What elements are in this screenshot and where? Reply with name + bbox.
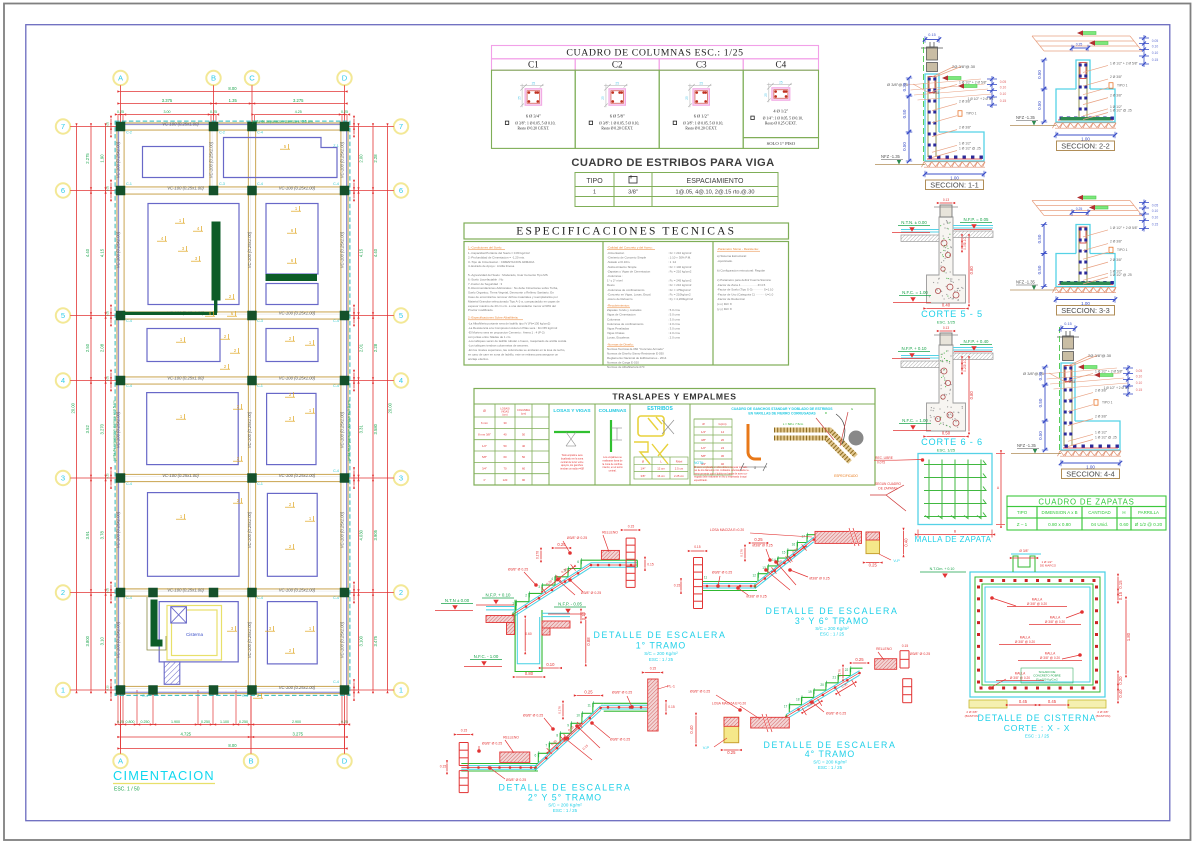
top dimension line 8.00	[117, 86, 347, 93]
svg-text:3.475: 3.475	[373, 635, 378, 646]
svg-text:Columnas de confinamiento: Columnas de confinamiento	[607, 322, 644, 326]
svg-text:CIMENTACION: CIMENTACION	[113, 768, 215, 783]
perimeter beams	[117, 123, 349, 695]
svg-text:0.50: 0.50	[1038, 398, 1043, 407]
svg-text:0.15: 0.15	[694, 545, 701, 549]
svg-text:R/del: R/del	[676, 459, 683, 463]
column C4 cross-section glyph	[764, 80, 792, 102]
svg-text:4.030: 4.030	[359, 529, 364, 540]
svg-text:20: 20	[721, 438, 725, 442]
top step dims	[577, 695, 600, 697]
svg-text:TIPO 1: TIPO 1	[966, 112, 977, 116]
svg-text:0.25: 0.25	[855, 657, 864, 662]
section label SECCION: 3-3	[1057, 306, 1115, 316]
svg-text:12 cm: 12 cm	[657, 467, 665, 471]
svg-text:Ø 1/2 @ 0.20: Ø 1/2 @ 0.20	[1135, 522, 1163, 527]
svg-text:21: 21	[833, 676, 837, 680]
svg-text:0.10: 0.10	[1152, 45, 1159, 49]
column C1 rebar text	[505, 114, 555, 131]
svg-text:0.25: 0.25	[933, 91, 939, 95]
svg-text:C2: C2	[612, 60, 623, 70]
svg-text:0.20: 0.20	[1118, 676, 1123, 685]
interior green wall bars	[212, 222, 220, 300]
svg-text:junta de separacion sismica e: junta de separacion sismica e=3.5 cm.	[347, 399, 351, 461]
stair 1 tramo steps	[516, 560, 594, 610]
svg-text:2.00: 2.00	[359, 154, 364, 163]
svg-text:40: 40	[503, 433, 507, 437]
svg-text:0.80 x 0.80: 0.80 x 0.80	[1048, 522, 1071, 527]
svg-text:CUADRO DE ESTRIBOS PARA VIGA: CUADRO DE ESTRIBOS PARA VIGA	[571, 157, 774, 169]
svg-text:2.01: 2.01	[359, 343, 364, 352]
svg-text:-Concreto en Vigas, Losas, Esc: -Concreto en Vigas, Losas, Escal.	[607, 292, 651, 296]
cisterna right dims	[1117, 577, 1119, 592]
svg-text:7: 7	[399, 122, 403, 131]
svg-text:60: 60	[522, 467, 526, 471]
svg-text:0.88: 0.88	[586, 637, 591, 646]
svg-text:0.25: 0.25	[1069, 380, 1075, 384]
svg-text:4.-Estrado de Apoyo : Arcilla: 4.-Estrado de Apoyo : Arcilla limosa	[468, 264, 515, 268]
bottom yellow pads	[969, 700, 1007, 708]
bottom blue dim 1.00	[1061, 462, 1120, 464]
svg-text:6 Ø 5/8": 6 Ø 5/8"	[610, 114, 625, 119]
section brick column top	[927, 47, 938, 60]
svg-text:11: 11	[587, 703, 591, 707]
svg-text:: 3.0 cms: : 3.0 cms	[668, 327, 680, 331]
svg-text:: Fc = 175kg/cm2: : Fc = 175kg/cm2	[668, 288, 691, 292]
losas y vigas glyph	[553, 408, 591, 471]
svg-text:0.15: 0.15	[902, 644, 909, 648]
svg-text:a) Sistema Estructural:: a) Sistema Estructural:	[717, 254, 747, 258]
svg-text:3.91: 3.91	[85, 531, 90, 540]
svg-text:PARRILLA: PARRILLA	[1138, 510, 1159, 515]
section label SECCION: 2-2	[1057, 141, 1115, 151]
svg-text:F'c=100 Kg/Cm2: F'c=100 Kg/Cm2	[1036, 677, 1058, 681]
svg-text:3: 3	[399, 474, 403, 483]
svg-text:2.28: 2.28	[373, 154, 378, 163]
svg-text:0.35: 0.35	[902, 82, 907, 91]
svg-text:0.10: 0.10	[546, 662, 555, 667]
svg-text:2° Y 5° TRAMO: 2° Y 5° TRAMO	[528, 793, 602, 803]
svg-text:8.00: 8.00	[228, 86, 237, 91]
svg-text:VC-100 (0.25x1.00): VC-100 (0.25x1.00)	[116, 621, 121, 658]
right dim ticks 0.05 0.10 0.10 0.15	[1139, 37, 1149, 39]
svg-text:2 Ø 3/8": 2 Ø 3/8"	[1110, 94, 1123, 98]
svg-text:0.35: 0.35	[1038, 371, 1043, 380]
svg-text:0.10: 0.10	[1000, 86, 1007, 90]
svg-text:CUADRO DE ZAPATAS: CUADRO DE ZAPATAS	[1038, 497, 1134, 506]
svg-text:0.60: 0.60	[1120, 522, 1129, 527]
landing slab top right	[604, 702, 648, 704]
svg-text:Normas de Carga E-020: Normas de Carga E-020	[607, 361, 639, 365]
svg-text:S/C = 200 Kg/m²: S/C = 200 Kg/m²	[813, 760, 847, 765]
svg-text:C-1: C-1	[257, 384, 263, 388]
svg-text:3.-Tipo de Cimentacion : CIMEN: 3.-Tipo de Cimentacion : CIMENTACION ARM…	[468, 260, 534, 264]
svg-text:2.08: 2.08	[100, 343, 105, 352]
svg-text:Ø3/8" Ø 0.25: Ø3/8" Ø 0.25	[746, 595, 766, 599]
svg-text:3: 3	[538, 585, 540, 589]
svg-text:-El Mortero sera en proporcion: -El Mortero sera en proporcion Cemento :…	[468, 330, 545, 334]
hatched pit below cistern	[164, 662, 180, 684]
svg-text:N.F.C. - 1.00: N.F.C. - 1.00	[474, 654, 499, 659]
svg-text:C-4: C-4	[257, 182, 263, 186]
svg-text:VC-100 (0.25x1.00): VC-100 (0.25x1.00)	[116, 511, 121, 548]
svg-text:S/C = 200 Kg/m²: S/C = 200 Kg/m²	[548, 803, 582, 808]
svg-text:C-4: C-4	[333, 680, 339, 684]
ground hatch strips	[901, 235, 939, 242]
svg-text:C-4: C-4	[333, 596, 339, 600]
svg-text:2 Ø 3/8": 2 Ø 3/8"	[1110, 240, 1123, 244]
svg-text:2: 2	[399, 588, 403, 597]
svg-text:3.800: 3.800	[85, 635, 90, 646]
svg-text:C-4: C-4	[126, 319, 132, 323]
svg-text:0.10: 0.10	[1136, 381, 1143, 385]
svg-text:0.40: 0.40	[904, 538, 909, 547]
svg-text:SEGUN CUADRO: SEGUN CUADRO	[875, 482, 902, 486]
svg-text:4.725: 4.725	[181, 732, 192, 737]
svg-text:1: 1	[399, 686, 403, 695]
svg-text:12: 12	[752, 574, 756, 578]
column C4 rebar text	[751, 109, 803, 126]
svg-text:: Fc = 210 kg/cm2: : Fc = 210 kg/cm2	[668, 283, 692, 287]
svg-text:SECCION: 4-4: SECCION: 4-4	[1066, 469, 1114, 478]
leader lines and rebar labels	[1083, 230, 1108, 237]
svg-text:C-4: C-4	[333, 469, 339, 473]
svg-text:RELLENO: RELLENO	[876, 647, 892, 651]
svg-text:3.52: 3.52	[85, 425, 90, 434]
svg-text:: Fc = 245 kg/cm2: : Fc = 245 kg/cm2	[668, 279, 692, 283]
svg-text:C-4: C-4	[126, 596, 132, 600]
svg-text:ESC : 1 / 25: ESC : 1 / 25	[818, 765, 843, 770]
svg-text:V-P: V-P	[703, 745, 710, 750]
svg-text:25: 25	[685, 96, 689, 100]
svg-text:VC-100 (0.25x1.00): VC-100 (0.25x1.00)	[340, 621, 345, 658]
svg-text:1 Ø 1/2" + 2 Ø 5/8": 1 Ø 1/2" + 2 Ø 5/8"	[1110, 226, 1139, 230]
svg-text:17: 17	[784, 705, 788, 709]
svg-text:VC-100 (0.25x1.00): VC-100 (0.25x1.00)	[167, 375, 204, 380]
svg-text:3.10: 3.10	[100, 637, 105, 646]
column C3 rebar text	[673, 114, 723, 131]
svg-text:TIPO 1: TIPO 1	[1117, 84, 1128, 88]
svg-text:0.15: 0.15	[1118, 591, 1123, 600]
svg-text:NFZ -1.35: NFZ -1.35	[881, 154, 901, 159]
PL-1 wall	[648, 679, 658, 731]
svg-text:0.25: 0.25	[727, 750, 736, 755]
svg-text:L = 6Ø o 7.5cm: L = 6Ø o 7.5cm	[783, 422, 804, 426]
svg-text:MALLA: MALLA	[1015, 672, 1026, 676]
svg-text:NFZ -1.35: NFZ -1.35	[1017, 443, 1037, 448]
svg-text:1@.05, 4@.10, 2@.15 rto.@.30: 1@.05, 4@.10, 2@.15 rto.@.30	[675, 190, 754, 196]
svg-text:70: 70	[503, 467, 507, 471]
svg-text:0.15: 0.15	[674, 584, 681, 588]
svg-text:0.40: 0.40	[1118, 689, 1123, 698]
svg-text:3/8": 3/8"	[628, 190, 638, 196]
estribos glyph	[634, 406, 688, 479]
svg-text:Resto Ø 0.20 C/EXT.: Resto Ø 0.20 C/EXT.	[685, 127, 717, 131]
svg-text:6 Ø 3/4": 6 Ø 3/4"	[526, 114, 541, 119]
svg-text:25: 25	[699, 81, 703, 85]
svg-text:0.25: 0.25	[106, 185, 110, 191]
svg-text:0.15: 0.15	[650, 667, 657, 671]
stair 4 tramo steps	[789, 668, 862, 712]
svg-text:1/2": 1/2"	[701, 446, 706, 450]
svg-text:2.-Profundidad de Cimentacion: 2.-Profundidad de Cimentacion = -1.20 mt…	[468, 255, 525, 259]
right dim ticks 0.05 0.10 0.10 0.15	[987, 78, 997, 80]
svg-text:14: 14	[721, 430, 725, 434]
svg-text:VC-100 (0.25x1.00): VC-100 (0.25x1.00)	[279, 310, 316, 315]
svg-text:0.15: 0.15	[1118, 580, 1123, 589]
corte top stub	[940, 333, 952, 345]
svg-text:TIPO 1: TIPO 1	[1102, 401, 1113, 405]
svg-text:Ø 3/8" @ 0.20: Ø 3/8" @ 0.20	[1010, 676, 1030, 680]
svg-text:REC. LIBRE: REC. LIBRE	[875, 456, 893, 460]
svg-text:Ø 3/8" @ 0.20: Ø 3/8" @ 0.20	[1027, 602, 1047, 606]
fan slab lines right	[1043, 368, 1117, 374]
svg-text:4° TRAMO: 4° TRAMO	[805, 749, 855, 759]
svg-text:N.F.P. + 0.10: N.F.P. + 0.10	[486, 593, 511, 598]
svg-text:4.15: 4.15	[359, 248, 364, 257]
svg-text:0.50: 0.50	[1037, 234, 1042, 243]
ground hatch strips	[901, 361, 939, 368]
svg-text:0.15: 0.15	[928, 33, 935, 37]
svg-text:Ø3/8" Ø 0.25: Ø3/8" Ø 0.25	[690, 690, 710, 694]
svg-text:VC-100 (0.25x1.00): VC-100 (0.25x1.00)	[340, 411, 345, 448]
svg-text:0.80: 0.80	[969, 266, 974, 275]
svg-text:-Parametro Sismo - Resistente:: -Parametro Sismo - Resistente:	[717, 247, 759, 251]
svg-text:DETALLE DE CISTERNA: DETALLE DE CISTERNA	[977, 713, 1096, 723]
corte red dims	[961, 360, 963, 367]
svg-text:Ø3/8" Ø 0.25: Ø3/8" Ø 0.25	[581, 591, 601, 595]
svg-text:0.50: 0.50	[942, 431, 951, 436]
svg-text:Ø3/8" Ø 0.25: Ø3/8" Ø 0.25	[610, 737, 630, 741]
svg-text:TIPO: TIPO	[586, 178, 603, 185]
svg-text:2.50: 2.50	[85, 343, 90, 352]
svg-text:1 Ø 1/2": 1 Ø 1/2"	[1095, 430, 1108, 434]
svg-text:-En los niveles superiores, la: -En los niveles superiores, las columnet…	[468, 348, 565, 352]
svg-text:3° Y 6° TRAMO: 3° Y 6° TRAMO	[795, 616, 869, 626]
svg-text:0.10: 0.10	[1000, 92, 1007, 96]
svg-text:NOTA:: NOTA:	[694, 461, 704, 465]
interior beam column C axis 7 to 1	[248, 127, 255, 691]
svg-text:8 mm 3/8": 8 mm 3/8"	[478, 433, 491, 437]
cisterna top opening	[1013, 556, 1035, 572]
svg-text:2.275: 2.275	[85, 153, 90, 164]
svg-text:: 5.0 cms: : 5.0 cms	[668, 308, 680, 312]
svg-text:0.50: 0.50	[1037, 70, 1042, 79]
svg-text:D: D	[342, 74, 348, 83]
svg-text:11: 11	[704, 576, 708, 580]
svg-text:C-3: C-3	[257, 319, 263, 323]
svg-text:1° TRAMO: 1° TRAMO	[636, 641, 686, 651]
svg-text:LOSA MACIZA E=0.20: LOSA MACIZA E=0.20	[710, 528, 744, 532]
svg-text:anclaje efectivo.: anclaje efectivo.	[468, 357, 489, 361]
svg-text:res de los diametros min. indi: res de los diametros min. indicados. Ade…	[694, 469, 750, 472]
svg-text:-Los tabiques tendran columnet: -Los tabiques tendran columnetas de amar…	[468, 344, 529, 348]
svg-text:0.800: 0.800	[126, 720, 135, 724]
svg-text:0.10: 0.10	[1136, 375, 1143, 379]
traslapes y empalmes panel frame	[474, 389, 875, 486]
left ladder	[458, 743, 460, 766]
svg-text:ESC. 1 / 50: ESC. 1 / 50	[114, 787, 140, 793]
svg-text:0.10: 0.10	[963, 237, 967, 244]
left blue dims	[1043, 60, 1045, 89]
svg-text:0.250: 0.250	[239, 720, 248, 724]
cyan footing outline	[1056, 89, 1115, 122]
svg-text:-La Albañileria portante sera: -La Albañileria portante sera de ladrill…	[468, 322, 550, 326]
bottom dimension line 4.725 / 3.275	[117, 725, 347, 749]
stair 2-5 tramo steps	[538, 703, 603, 763]
svg-text:Vigas Peraltadas: Vigas Peraltadas	[607, 327, 630, 331]
svg-text:6 mm: 6 mm	[481, 421, 489, 425]
svg-text:1 Ø 1/2" @ .25: 1 Ø 1/2" @ .25	[1110, 109, 1132, 113]
svg-text:N.T.Cim. + 0.10: N.T.Cim. + 0.10	[930, 567, 955, 571]
svg-text:Ø3/8" Ø 0.25: Ø3/8" Ø 0.25	[508, 568, 528, 572]
svg-text:0.13: 0.13	[943, 326, 949, 330]
svg-text:: Fc = 210 kg/cm2: : Fc = 210 kg/cm2	[668, 251, 692, 255]
plan axis bubbles right 7-1	[345, 119, 409, 133]
svg-text:5: 5	[399, 311, 403, 320]
svg-text:16 cm: 16 cm	[657, 474, 665, 478]
bottom blue dim 1.00	[925, 173, 984, 175]
svg-text:-Columnas de confinamiento: -Columnas de confinamiento	[607, 288, 645, 292]
svg-text:4.25: 4.25	[295, 110, 302, 114]
cistern hatch box with X	[171, 607, 187, 623]
svg-text:-Columnas :: -Columnas :	[607, 274, 623, 278]
svg-text:04 Unid.: 04 Unid.	[1091, 522, 1108, 527]
seccion 2-2	[1010, 30, 1158, 150]
svg-text:-Los tabiques seran de ladrill: -Los tabiques seran de ladrillo tubular …	[468, 339, 567, 343]
svg-text:7: 7	[61, 122, 65, 131]
stair 1 pit	[515, 600, 542, 672]
perimeter cyan dashed line	[115, 121, 350, 695]
svg-text:0.25: 0.25	[754, 537, 763, 542]
svg-text:VC-100 (0.25x1.00): VC-100 (0.25x1.00)	[340, 141, 345, 178]
svg-text:0.25: 0.25	[869, 563, 878, 568]
malla red dims	[1000, 454, 1002, 525]
svg-text:-Cimentacion: -Cimentacion	[607, 251, 625, 255]
svg-text:Ø3/8" Ø 0.25: Ø3/8" Ø 0.25	[809, 577, 829, 581]
column C2 cross-section glyph	[601, 81, 627, 107]
svg-text:1.35: 1.35	[229, 98, 238, 103]
svg-text:nerse presente que el doblez e: nerse presente que el doblez en barras d…	[694, 472, 748, 475]
svg-text:C-4: C-4	[333, 384, 339, 388]
svg-text:-Normas de Diseño:: -Normas de Diseño:	[607, 342, 634, 346]
svg-text:Ø 3/8" @ 0.20: Ø 3/8" @ 0.20	[1015, 640, 1035, 644]
svg-text:CORTE : X - X: CORTE : X - X	[1004, 723, 1071, 733]
svg-text:6: 6	[399, 186, 403, 195]
svg-text:NFZ -1.35: NFZ -1.35	[1016, 115, 1036, 120]
svg-text:0.25: 0.25	[117, 110, 124, 114]
svg-text:RELLENO: RELLENO	[602, 531, 618, 535]
svg-text:ESC. 1/25: ESC. 1/25	[937, 448, 956, 453]
svg-text:: 5.0 cms: : 5.0 cms	[668, 313, 680, 317]
svg-text:VC-100 (0.25x1.00): VC-100 (0.25x1.00)	[247, 621, 252, 658]
svg-text:6: 6	[535, 753, 537, 757]
bottom slab	[461, 763, 538, 765]
V-P column	[724, 717, 739, 742]
svg-text:VC-100 (0.25x1.00): VC-100 (0.25x1.00)	[116, 141, 121, 178]
svg-text:N.F.C. = 1.00: N.F.C. = 1.00	[902, 290, 928, 295]
scallop hatch under footing	[924, 162, 985, 167]
svg-text:C4: C4	[775, 60, 786, 70]
svg-text:VC-100 (0.25x1.00): VC-100 (0.25x1.00)	[247, 511, 252, 548]
svg-text:25: 25	[779, 80, 783, 84]
svg-text:0.50: 0.50	[1037, 265, 1042, 274]
svg-text:0.178: 0.178	[838, 669, 842, 677]
svg-text:2 Ø 3/8": 2 Ø 3/8"	[1110, 258, 1123, 262]
svg-text:18: 18	[796, 697, 800, 701]
svg-text:C3: C3	[696, 60, 707, 70]
svg-text:3/8": 3/8"	[641, 474, 646, 478]
svg-text:C-4: C-4	[257, 596, 263, 600]
svg-text:2Ø 3/8"@.30: 2Ø 3/8"@.30	[1088, 353, 1112, 358]
svg-text:0.178: 0.178	[558, 706, 562, 714]
svg-text:ESC : 1 / 25: ESC : 1 / 25	[1025, 734, 1050, 739]
svg-text:0.15: 0.15	[668, 705, 675, 709]
svg-text:N.F.P. + 0.40: N.F.P. + 0.40	[964, 339, 989, 344]
svg-text:0.15: 0.15	[1064, 322, 1071, 326]
svg-text:0.25: 0.25	[106, 685, 110, 691]
leader lines and rebar labels	[932, 84, 957, 91]
vp dims	[903, 531, 905, 554]
svg-text:0.40: 0.40	[689, 725, 694, 734]
seccion 1-1	[875, 33, 1006, 190]
cyan wall outline	[1061, 363, 1075, 421]
svg-text:5/8": 5/8"	[482, 455, 487, 459]
stair 1 red dims	[524, 619, 526, 651]
svg-text:3: 3	[61, 474, 65, 483]
stub beam row 2 A to cistern	[121, 589, 221, 596]
svg-text:: 2.0 cms: : 2.0 cms	[668, 336, 680, 340]
svg-text:(cm): (cm)	[502, 413, 507, 417]
svg-text:en caso de caer en zona de lad: en caso de caer en zona de ladrillo, est…	[468, 352, 558, 356]
column C1 cross-section glyph	[517, 81, 543, 107]
svg-text:Vigas Chatas: Vigas Chatas	[607, 331, 625, 335]
svg-text:-Cimiento de Concreto Simple: -Cimiento de Concreto Simple	[607, 256, 647, 260]
svg-text:DE MARCO: DE MARCO	[1040, 564, 1057, 568]
svg-text:0.250: 0.250	[201, 720, 210, 724]
svg-text:0.25: 0.25	[106, 310, 110, 316]
svg-text:: 2.0 cms: : 2.0 cms	[668, 331, 680, 335]
svg-text:25: 25	[615, 81, 619, 85]
cisterna rebar dots	[980, 580, 982, 582]
malla green grid	[925, 460, 929, 519]
svg-text:Ø3/8" Ø 0.25: Ø3/8" Ø 0.25	[752, 544, 772, 548]
svg-text:0.40: 0.40	[942, 303, 951, 308]
malla de zapata cyan box	[918, 454, 992, 525]
ground left of pit	[486, 609, 515, 611]
column C2 rebar text	[589, 114, 639, 131]
wall rebar lines	[927, 76, 929, 157]
svg-text:Resto: Resto	[607, 283, 615, 287]
svg-text:40: 40	[721, 462, 725, 466]
svg-text:10: 10	[576, 713, 580, 717]
svg-text:especificado.: especificado.	[694, 480, 708, 482]
bottom dimension line 8.00	[117, 743, 347, 750]
svg-text:Ø 3/8" @ 0.20: Ø 3/8" @ 0.20	[1045, 620, 1065, 624]
svg-text:Normas de Albañileria E-070: Normas de Albañileria E-070	[607, 365, 645, 369]
right dim ticks 0.05 0.10 0.10 0.15	[1123, 367, 1133, 369]
svg-text:4.15: 4.15	[100, 248, 105, 257]
green wall elbow to row 5	[215, 300, 217, 312]
svg-text:4: 4	[61, 376, 65, 385]
corte 5-5	[892, 198, 993, 325]
svg-text:15: 15	[782, 550, 786, 554]
svg-text:30: 30	[503, 421, 507, 425]
svg-text:espesor maximo de 20 cm cm. a: espesor maximo de 20 cm cm. a una densid…	[468, 304, 556, 308]
svg-text:TIPO 1: TIPO 1	[1117, 248, 1128, 252]
svg-text:0.25: 0.25	[106, 375, 110, 381]
svg-text:24: 24	[721, 446, 725, 450]
